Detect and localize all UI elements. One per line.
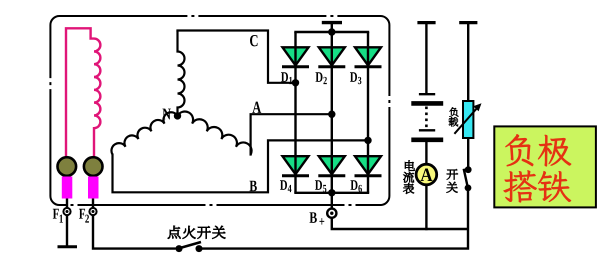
brush holder (right, magenta) [88,177,99,199]
load resistor (cyan) [463,101,473,138]
label B [249,181,256,192]
rectifier column 1 wire [294,32,296,193]
D1 cathode bar [282,65,309,68]
terminal F1 [63,208,70,215]
D3 cathode bar [355,65,382,68]
ignition switch contact (right) [196,245,203,252]
battery case ground bar [417,21,435,24]
wire battery to ammeter [425,142,427,164]
rectifier column 2 wire [331,32,333,193]
label F1 [53,209,59,219]
junction on bottom rail [328,189,335,196]
field winding (rotor coil, magenta) [66,28,100,157]
label D5 [315,180,322,190]
D2 cathode bar [318,65,345,68]
load case ground bar [459,21,477,24]
label F2 [79,209,85,219]
note box (negative grounded) [494,126,596,207]
label 电流表 [405,160,415,170]
slip ring / brush (left) [58,157,77,176]
label 负载 [449,107,458,116]
switch contact (bottom) [465,185,472,192]
D5 cathode bar [318,174,345,177]
wire brush to F1 [66,199,68,209]
wire ignition switch to right riser [199,191,468,249]
stator winding phase C (vertical coil) [178,31,185,116]
wire brush to F2 [92,199,94,209]
D4 cathode bar [282,174,309,177]
diode D2 [319,47,345,65]
wire phase A to rectifier [251,114,332,155]
rectifier top rail (to case ground) [294,31,369,33]
battery dotted middle [425,107,428,129]
stator winding phase B (lower-left coil) [111,112,177,154]
diode D6 [355,156,381,174]
wire B+ to loads [332,217,468,229]
label 开关 [447,169,458,179]
wire ammeter to B+ line [425,186,427,230]
ignition switch contact (left) [176,245,183,252]
junction B/col3 [364,137,371,144]
label D6 [350,180,357,190]
ammeter [416,164,437,185]
stator neutral node N [174,112,181,119]
wire bottom rail to B+ [331,193,333,209]
diode D4 [283,156,309,174]
wire ground to load [467,23,469,102]
label D3 [350,72,357,82]
rectifier column 3 wire [367,32,369,193]
battery plate (top cell, positive thick) [411,101,443,106]
load arrow [454,106,478,134]
label 点火开关 [168,226,181,239]
junction on top rail [328,28,335,35]
switch blade [464,169,468,188]
label 搭铁 [503,170,537,202]
wire F2 down to ignition line [93,215,176,249]
diode D3 [355,47,381,65]
label 负极 [505,134,533,167]
wire ground to battery [425,23,427,94]
slip ring / brush (right) [84,157,103,176]
switch contact (top) [465,166,472,173]
label C [250,35,258,46]
terminal B+ [327,209,336,218]
wire F1 to ground [66,215,68,247]
ignition switch blade [180,242,201,248]
battery plate (top cell, negative) [419,93,435,95]
label N [162,109,170,120]
terminal F2 [89,208,96,215]
diode D1 [283,47,309,65]
junction C/col1 [292,79,299,86]
wire load to switch [467,138,469,167]
battery plate (bottom cell, negative) [419,129,435,131]
brush holder (left, magenta) [62,177,73,199]
label B+ [309,212,316,223]
stator winding phase A (lower-right coil) [178,111,252,154]
ground (rotor negative) [58,245,78,248]
diode D5 [319,156,345,174]
rectifier bottom rail [294,192,369,194]
label A [252,102,261,113]
wire phase C to rectifier [176,31,295,83]
junction A/col2 [328,111,335,118]
case ground bar (top) [322,21,342,24]
label D2 [315,72,322,82]
label D1 [281,72,288,82]
label D4 [280,180,287,190]
battery plate (bottom cell, positive thick) [411,138,443,143]
wire phase B to rectifier [113,140,369,192]
D6 cathode bar [355,174,382,177]
alternator housing boundary (dash-dot box) [50,16,389,205]
